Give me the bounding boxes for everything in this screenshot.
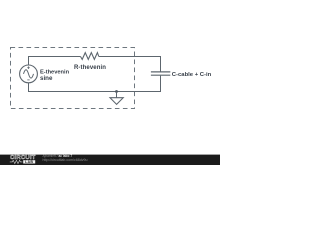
bottom rail wire [29, 83, 162, 92]
resistor R-thevenin [81, 53, 99, 60]
capacitor C-cable + C-in [151, 72, 170, 75]
label E-thevenin sine [40, 70, 70, 82]
junction node dot [115, 90, 118, 93]
svg-text:C-cable + C-in: C-cable + C-in [172, 72, 212, 78]
ground symbol [110, 98, 123, 105]
wire from source top to resistor [29, 57, 81, 66]
label R-thevenin [74, 65, 106, 71]
wire from resistor to capacitor top [99, 57, 161, 72]
watermark url line 2 [43, 158, 88, 162]
svg-text:sine: sine [40, 75, 53, 82]
wire from capacitor bottom to bottom rail [160, 76, 162, 92]
circuitlab logo LAB box [23, 160, 35, 164]
circuitlab logo CIRCUIT text [10, 155, 36, 161]
svg-text:R-thevenin: R-thevenin [74, 65, 106, 71]
ground stub wire [116, 92, 118, 98]
voltage source E-thevenin (AC sine source) [20, 65, 38, 83]
circuitlab logo resistor squiggle [10, 160, 23, 163]
label C-cable + C-in [172, 72, 212, 78]
thevenin dashed enclosure box [11, 48, 135, 109]
svg-text:http://circuitlab.com/c68dv9u: http://circuitlab.com/c68dv9u [43, 158, 88, 162]
watermark credit line 1 [43, 154, 73, 158]
watermark black bar [0, 155, 220, 165]
svg-text:LAB: LAB [25, 160, 33, 164]
